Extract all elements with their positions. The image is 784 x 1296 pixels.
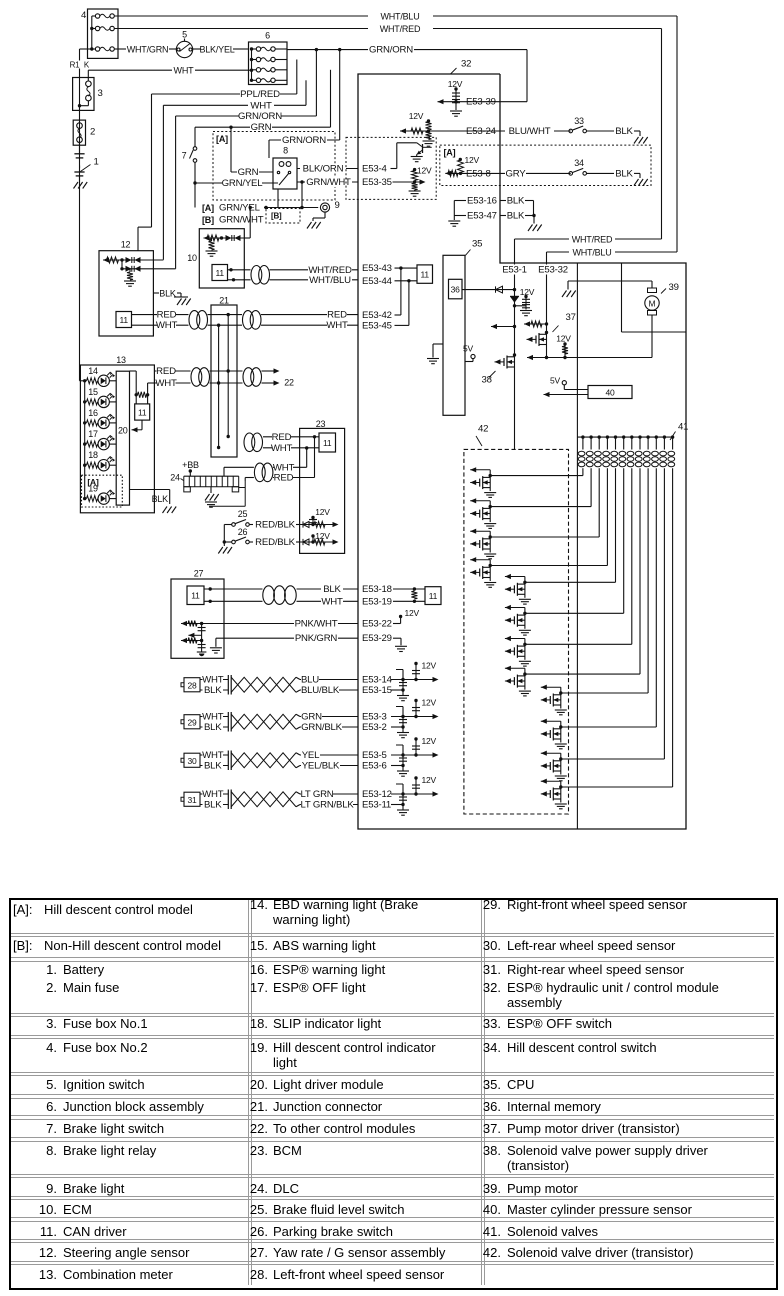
wire WHT down to steering sensor	[162, 105, 164, 259]
solenoid coil	[655, 435, 658, 438]
internal ground for E53-16/47	[453, 201, 455, 221]
yaw internal row 2	[181, 638, 187, 643]
CPU (35)	[443, 255, 465, 415]
pump motor compartment divider	[621, 263, 623, 332]
wire WHT junction to E53-45	[208, 324, 243, 326]
wire WHT junction to BCM	[263, 447, 300, 449]
pin E53-1 label	[501, 265, 528, 275]
wire RED to junction connector	[154, 370, 191, 372]
solenoid coil	[622, 435, 625, 438]
wire right-side vertical WHT/RED	[661, 29, 663, 240]
arrow from CAN driver to module 20	[141, 420, 143, 430]
pin E53-32 label	[538, 265, 568, 275]
solenoid valves (41)	[577, 436, 672, 438]
brake light relay (8)	[273, 158, 297, 189]
solenoid coil	[598, 435, 601, 438]
pin E53-32 riser	[546, 252, 548, 263]
grounds below DLC	[210, 487, 212, 493]
wire WHT to junction connector	[148, 382, 155, 384]
pin row E53-8	[445, 171, 451, 176]
pump motor driver transistor (37)	[545, 331, 548, 334]
wire memory to E53-1 rail	[462, 289, 515, 291]
twisted pair yaw	[263, 585, 297, 605]
solenoid driver transistor 3	[470, 530, 490, 532]
solenoid coil	[671, 435, 674, 438]
yaw internal row PNK/WHT	[181, 621, 187, 626]
solenoid coil	[589, 435, 592, 438]
connector bar sensor 31	[227, 790, 229, 810]
pump motor (39)	[651, 315, 653, 358]
wire LT GRN/BLK to E53-11	[300, 804, 358, 806]
wire GRY to hill descent switch	[500, 172, 571, 174]
light driver module (20)	[116, 371, 129, 505]
wire YEL to E53-5	[300, 754, 358, 756]
legend table frame	[9, 898, 778, 1290]
warning light 17	[83, 442, 86, 445]
wire WHT DLC to BCM	[223, 467, 225, 476]
wire YEL/BLK to E53-6	[300, 765, 358, 767]
wheel speed sensor (30)	[181, 758, 184, 762]
shielded cable sensor 29	[231, 714, 296, 729]
wheel speed sensor (29)	[181, 720, 184, 724]
CAN bus link to E53-45	[408, 281, 410, 326]
warning light 15	[83, 400, 86, 403]
steering angle sensor (12)	[99, 251, 153, 336]
solenoid coil	[606, 435, 609, 438]
wire to brake light	[264, 207, 318, 209]
solenoid coil	[663, 435, 666, 438]
twisted pair	[189, 310, 209, 330]
fuse box No.1 (3)	[73, 78, 94, 111]
wire GRN/ORN branch in dashed box	[339, 50, 341, 140]
pin row E53-24	[400, 128, 406, 133]
connector bar sensor 29	[227, 712, 229, 732]
brake light switch (7)	[194, 127, 196, 147]
ECM internal resistor to ground	[211, 238, 213, 241]
warning light 19	[83, 497, 86, 500]
wire PPL/RED down to steering sensor	[151, 94, 153, 227]
wire GRN/YEL switch to relay	[195, 182, 278, 184]
wire WHT/RED top	[114, 28, 368, 30]
solenoid driver transistor 1	[470, 469, 490, 471]
solenoid coil	[630, 435, 633, 438]
solenoid driver transistor 4	[470, 559, 490, 561]
dashed box [B]	[266, 209, 300, 224]
wire K down to fuse box No.1	[87, 70, 89, 81]
CAN driver in ESP (11) yaw side	[425, 587, 441, 605]
solenoid coil	[638, 435, 641, 438]
wire brake switch to ECM	[249, 208, 251, 239]
meter LED bus	[84, 381, 86, 499]
pin row E53-39	[438, 99, 444, 104]
wire RED junction to E53-42	[208, 314, 243, 316]
wire RED to junction connector	[132, 314, 190, 316]
module/hydraulic divider	[576, 263, 578, 829]
solenoid valve driver box (42) dashed	[464, 449, 569, 814]
wheel speed sensor (31)	[181, 797, 184, 801]
meter module 20 output BLK	[130, 489, 170, 491]
wire GRN/WHT relay to E53-35	[297, 181, 358, 183]
E53-32 internal rail	[546, 263, 548, 333]
wire PPL/RED from junction block	[296, 60, 298, 95]
node R1 / K	[80, 48, 92, 50]
wire WHT/BLU top	[114, 15, 368, 17]
solenoid driver transistor 10	[541, 720, 561, 722]
wire WHT yaw	[204, 600, 263, 602]
dashed box [A] around relay	[213, 132, 335, 201]
combination meter (13)	[80, 365, 154, 513]
warning light 18	[83, 464, 86, 467]
fuse box No.2 (4)	[88, 9, 119, 58]
wheel speed sensor (28)	[181, 683, 184, 687]
wire R1 to combination meter	[79, 49, 81, 381]
shielded cable sensor 30	[231, 753, 296, 768]
junction connector (21)	[211, 305, 237, 457]
ground tap left of CPU	[433, 343, 443, 345]
wire BLU to E53-14	[300, 679, 358, 681]
yaw chassis ground	[197, 651, 207, 653]
brake light (9)	[320, 203, 329, 212]
gate row of pump driver	[524, 321, 530, 326]
pin row E53-16	[454, 200, 466, 202]
wire BLK/ORN relay to E53-4	[297, 168, 358, 170]
CAN driver in ESP unit (11)	[417, 265, 433, 283]
wire WHT/RED to E53-1	[515, 238, 570, 240]
switch ground	[223, 525, 225, 547]
wire PNK/GRN to E53-29	[216, 637, 358, 639]
arrow to CPU	[513, 325, 516, 328]
wire BLK/YEL to junction block	[193, 48, 201, 50]
meter internal resistor	[135, 371, 137, 404]
yaw rate / G sensor assembly (27)	[171, 579, 224, 658]
wires WHT/RED WHT/BLU from ECM	[228, 269, 252, 271]
solenoid driver transistor 9	[541, 686, 561, 688]
BCM (23)	[300, 428, 345, 553]
12V clamp on rail	[513, 304, 516, 307]
termination resistor	[411, 591, 417, 599]
sensor internal row 2	[126, 266, 132, 272]
wire WHT from K to junction block	[88, 69, 172, 71]
shielded cable sensor 31	[231, 792, 296, 807]
ECM internal clamp row	[204, 235, 210, 240]
wire LT GRN to E53-12	[300, 793, 358, 795]
solenoid driver transistor 12	[541, 780, 561, 782]
twisted pair	[242, 310, 262, 330]
CAN driver in ECM (11)	[212, 265, 228, 281]
internal memory (36)	[449, 279, 463, 299]
wire right-side vertical WHT/BLU	[676, 16, 678, 252]
wire GRN to brake light relay	[230, 127, 232, 172]
connector bar sensor 30	[227, 751, 229, 771]
wire GRN/ORN branch down	[315, 50, 317, 116]
wire BLU/BLK to E53-15	[300, 689, 358, 691]
wire GRN/ORN down to steering sensor	[175, 116, 177, 269]
pin row E53-47	[454, 215, 466, 217]
wire GRN/ORN riser to E53-39	[526, 50, 528, 102]
shielded cable sensor 28	[231, 677, 296, 692]
DLC side hook	[239, 487, 246, 489]
wires to other control modules (22)	[262, 370, 277, 372]
wire BLK yaw	[204, 588, 263, 590]
CAN driver in meter (11)	[135, 404, 150, 420]
CAN bus link to E53-42	[400, 268, 402, 315]
solenoid driver transistor 8	[505, 667, 525, 669]
wire WHT from junction block	[305, 80, 307, 105]
ground below battery	[74, 182, 79, 189]
dashed box [A] hill descent area	[346, 137, 436, 199]
E53-1 internal rail	[514, 263, 516, 355]
sensor internal resistor ground	[129, 269, 131, 272]
ground below brake light	[307, 222, 312, 229]
solenoid driver transistor 11	[541, 752, 561, 754]
wire meter RED out	[130, 370, 137, 372]
main fuse (2)	[73, 120, 85, 145]
ESP hydraulic unit / control module assembly (32) outline	[358, 74, 686, 829]
master cylinder pressure sensor (40)	[588, 386, 632, 399]
wires through junction connector	[210, 370, 244, 372]
wire GRN to E53-3	[300, 716, 358, 718]
ignition switch (5)	[176, 41, 192, 57]
wire GRN/BLK to E53-2	[300, 726, 358, 728]
wire GRN/ORN main line	[287, 49, 527, 51]
transistor driver for relay [A]	[391, 168, 397, 170]
wire WHT/BLU to E53-32	[547, 251, 570, 253]
dotted box [A] hill descent light	[82, 475, 123, 507]
wire WHT to BCM	[273, 466, 307, 468]
wire WHT to junction connector	[132, 324, 190, 326]
yaw internal column	[201, 624, 203, 653]
CAN driver in yaw sensor (11)	[187, 586, 204, 605]
CAN driver in BCM (11)	[319, 433, 336, 452]
wire BLK sensor ground	[153, 292, 159, 294]
twisted pair DLC	[254, 463, 274, 483]
battery (1)	[74, 153, 84, 155]
solenoid supply driver transistor (38)	[513, 353, 516, 356]
solenoid driver transistor 2	[470, 500, 490, 502]
solenoid coil	[614, 435, 617, 438]
warning light 16	[83, 421, 86, 424]
solenoid driver transistor 5	[505, 576, 525, 578]
solenoid coil	[581, 435, 584, 438]
warning light 14	[83, 379, 86, 382]
ECM (10)	[199, 229, 244, 288]
solenoid coil	[646, 435, 649, 438]
wire GRN from junction block	[330, 70, 332, 127]
solenoid driver transistor 7	[505, 638, 525, 640]
pump motor supply row	[527, 355, 533, 360]
junction block assembly (6)	[249, 42, 288, 85]
CAN driver in sensor (11)	[116, 312, 132, 328]
diode on rail	[510, 295, 519, 297]
wire RED to BCM	[273, 477, 315, 479]
solenoid driver transistor 6	[505, 607, 525, 609]
pin E53-1 riser	[514, 239, 516, 263]
wire PNK/WHT to E53-22	[202, 623, 358, 625]
wire RED DLC to BCM	[244, 478, 246, 482]
wire RED junction to BCM	[263, 436, 300, 438]
wire BLU/WHT to ESP OFF switch	[500, 130, 571, 132]
connector bar sensor 28	[227, 675, 229, 695]
wire WHT/GRN fuse to ignition switch	[114, 48, 126, 50]
sensor internal row 1	[103, 257, 109, 262]
twisted pair to BCM	[244, 433, 264, 453]
